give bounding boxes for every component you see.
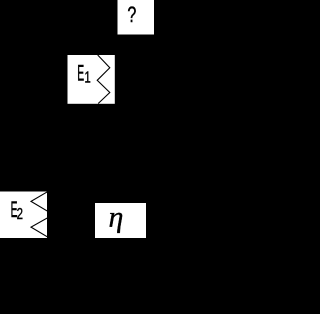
- zigzag torn edge of E1 box: [97, 55, 110, 104]
- svg-text:η: η: [109, 201, 124, 234]
- node E1 (EMF source E1 label box): [68, 55, 115, 104]
- svg-text:1: 1: [84, 67, 91, 85]
- node eta (efficiency label box): [95, 201, 146, 238]
- svg-text:?: ?: [127, 4, 136, 28]
- node E2 (EMF source E2 label box, clipped at left image edge): [0, 188, 53, 240]
- node ? (unknown quantity label box, top): [118, 0, 155, 35]
- svg-text:2: 2: [17, 204, 24, 222]
- zigzag torn edge of E2 box (right vertices clipped by box edge): [31, 188, 53, 240]
- svg-text:E: E: [77, 60, 84, 86]
